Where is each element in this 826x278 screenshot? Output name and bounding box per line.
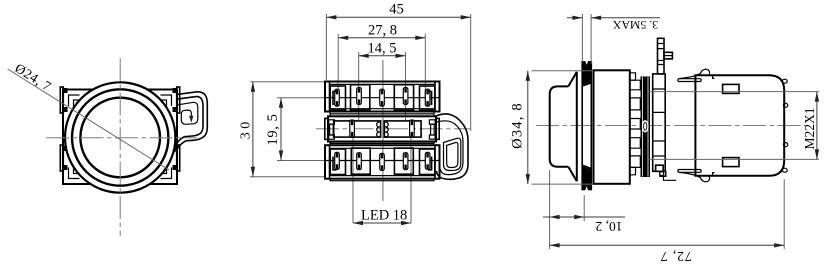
lock nut (black band) xyxy=(641,77,651,178)
horizontal centerline row2 xyxy=(316,128,471,130)
LED ext right xyxy=(410,128,412,223)
vertical centerline xyxy=(119,58,121,236)
wire clip right of row2 xyxy=(436,114,468,179)
tab inner ticks right xyxy=(173,88,177,93)
thread teeth xyxy=(630,80,641,167)
gasket bottom (black) xyxy=(582,164,591,190)
left mounting tab upper xyxy=(60,87,63,113)
row1 terminal hooks xyxy=(333,92,337,106)
dim 14.5 xyxy=(359,55,406,57)
svg-text:14, 5: 14, 5 xyxy=(368,41,397,57)
outer circle xyxy=(65,82,175,192)
horizontal centerline xyxy=(46,137,197,139)
extension line 27.8 right xyxy=(424,34,426,97)
row2 LED terminals xyxy=(350,120,355,137)
svg-text:10, 2: 10, 2 xyxy=(596,219,623,234)
block bottom-left clip xyxy=(678,170,701,173)
block top-left clip xyxy=(678,79,701,82)
cap skirt bottom xyxy=(568,167,577,182)
svg-text:Ø34, 8: Ø34, 8 xyxy=(510,102,526,149)
middle circle xyxy=(72,89,168,185)
row1-row2 lip xyxy=(330,112,434,117)
wire clip inner hook xyxy=(444,138,461,170)
dim 19.5 xyxy=(280,98,282,161)
dim 30 xyxy=(252,82,254,177)
corner bracket top-right xyxy=(157,95,172,110)
adapter section xyxy=(653,74,666,171)
right edge bumps xyxy=(782,79,787,83)
extension line 45 left xyxy=(325,14,327,80)
cap skirt top xyxy=(568,72,577,87)
tab inner ticks left xyxy=(64,88,68,93)
svg-text:72, 7: 72, 7 xyxy=(660,248,692,263)
latch lever right xyxy=(173,92,208,153)
row2 (LED row) xyxy=(325,116,439,141)
gasket top (black) xyxy=(582,61,591,87)
right mounting tab upper xyxy=(177,87,180,113)
row2 spring zigzag right xyxy=(385,122,388,137)
right mounting tab lower xyxy=(177,145,180,171)
corner bracket bottom-right xyxy=(157,164,172,179)
extension line 45 right xyxy=(470,14,472,131)
LED ext left xyxy=(352,128,354,223)
bezel body xyxy=(594,70,630,184)
row3 (bottom contact row) xyxy=(325,145,440,179)
svg-text:M22X1: M22X1 xyxy=(802,107,817,149)
svg-text:19, 5: 19, 5 xyxy=(265,114,281,146)
svg-text:27, 8: 27, 8 xyxy=(368,23,397,39)
svg-text:45: 45 xyxy=(389,2,404,18)
row3 screws xyxy=(335,152,340,169)
center extension line xyxy=(382,60,384,201)
button cap xyxy=(550,86,569,166)
dim 27.8 xyxy=(338,37,425,39)
inner circle (button face) xyxy=(80,98,160,178)
row2 spring zigzag left xyxy=(377,122,380,137)
latch inner spiral with arrow xyxy=(178,102,198,124)
dim 45 xyxy=(326,16,470,18)
dim M22X1 xyxy=(648,91,819,93)
svg-text:3. 5MAX: 3. 5MAX xyxy=(612,18,658,32)
row2-row3 lip xyxy=(330,142,434,146)
row3 bottom band xyxy=(330,179,434,181)
left extension horizontals xyxy=(250,81,325,83)
svg-text:LED 18: LED 18 xyxy=(361,208,407,224)
body square xyxy=(63,90,177,185)
window top xyxy=(723,84,739,93)
dim 34.8 xyxy=(532,70,593,72)
row1 (top contact row) xyxy=(325,82,440,112)
extension line 14.5 right xyxy=(405,52,407,120)
downward tab xyxy=(656,165,664,171)
row1 screws xyxy=(335,89,340,106)
upward tab xyxy=(658,38,665,74)
extension line 27.8 left xyxy=(337,34,339,97)
dim 3.5MAX xyxy=(581,14,583,62)
dim 10.2 xyxy=(549,170,551,221)
left mounting tab lower xyxy=(60,145,63,171)
corner bracket top-left xyxy=(69,95,84,110)
flange face xyxy=(576,72,578,181)
contact block body xyxy=(695,75,784,176)
extension line 14.5 left xyxy=(358,52,360,120)
row3 terminal hooks xyxy=(333,157,337,170)
dim LED 18 xyxy=(353,222,411,224)
window bottom xyxy=(723,158,739,167)
svg-text:30: 30 xyxy=(238,118,253,139)
centerline xyxy=(536,125,812,127)
diameter leader line xyxy=(8,69,169,170)
dim 72.7 xyxy=(549,221,551,249)
corner bracket bottom-left xyxy=(69,164,84,179)
